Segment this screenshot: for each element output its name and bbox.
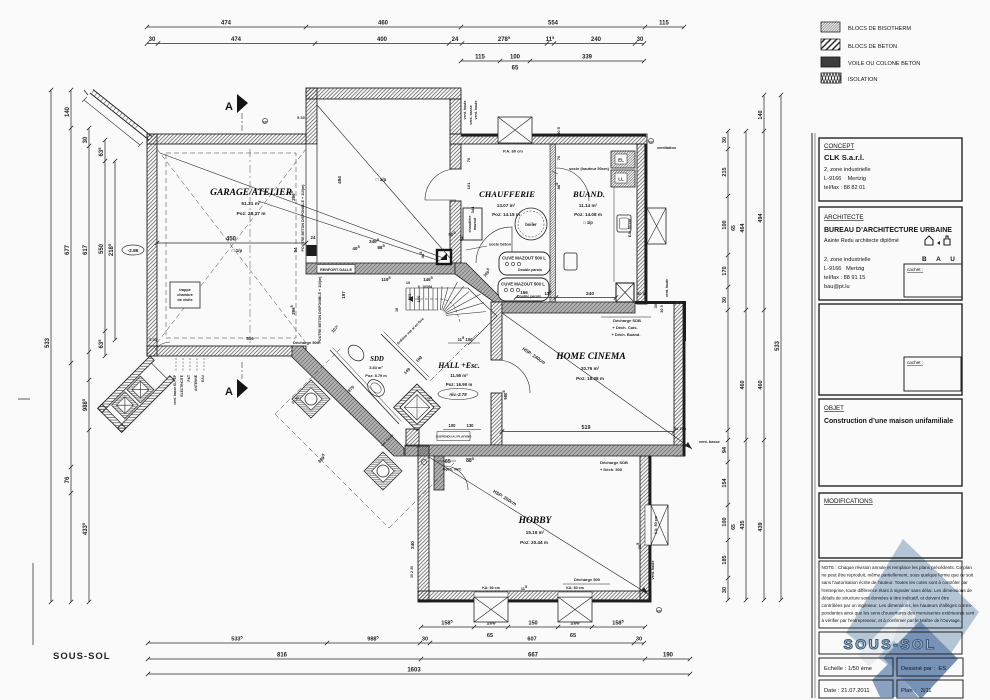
corridor centre dash line — [430, 332, 479, 381]
BAU logo houses — [925, 236, 933, 245]
chaudiere box — [463, 208, 482, 240]
column voile beton hall — [437, 250, 451, 264]
black outer edge hobby bottom — [418, 599, 651, 602]
legend swatch isolation — [821, 73, 841, 83]
page edge line bottom left — [32, 563, 34, 645]
stairs winder fan — [440, 282, 497, 345]
right dim 533 — [779, 93, 783, 602]
sink square buanderie — [564, 253, 577, 270]
bottom dim line 2 — [146, 641, 646, 645]
right dim line fine — [726, 129, 730, 602]
wall home cinema bottom / hobby top band — [405, 445, 685, 456]
chimney block EL — [611, 151, 635, 168]
diagonal dim along retaining wall — [82, 97, 143, 147]
left dim line 30-617-988-433 — [87, 126, 91, 604]
objet box — [819, 399, 962, 486]
door arc buanderie — [556, 168, 589, 201]
watermark white logo cutout — [858, 604, 916, 667]
entrance wing rotated corridor — [98, 356, 174, 432]
stairs straight flight — [406, 288, 468, 310]
utility riser labels — [175, 358, 177, 372]
renfort dalle label box — [317, 265, 355, 274]
top dim line 3 — [459, 59, 646, 63]
black outer edge home cinema right — [683, 302, 686, 456]
left dim 218 — [113, 159, 117, 342]
wall hobby bottom — [418, 591, 651, 602]
garage center line — [249, 149, 251, 343]
door arc chaufferie left — [425, 169, 456, 200]
wall top room right upper — [450, 99, 461, 134]
partition chaufferie buanderie — [550, 144, 556, 302]
wall chaufferie left lower segment — [450, 201, 461, 263]
concept box — [819, 138, 962, 201]
wall buanderie right — [637, 144, 647, 304]
elevator shaft diamond — [394, 384, 441, 431]
cachet box 1 — [904, 264, 962, 297]
SDD hall partition wall — [381, 334, 427, 380]
wall garage bottom — [147, 346, 306, 356]
wall garage top — [147, 134, 306, 144]
window box hobby right — [651, 505, 668, 545]
wall top room left upper — [306, 88, 317, 144]
plan no box — [897, 680, 963, 698]
left dim line 533 — [49, 88, 53, 604]
wall home cinema left upper — [491, 302, 502, 360]
watermark light blue diamond — [846, 539, 979, 693]
buanderie interior line — [613, 187, 615, 282]
window sill hobby bottom 1 — [474, 592, 508, 597]
window box chaufferie top — [498, 117, 532, 143]
wall buanderie bottom jog (voile) — [635, 301, 686, 304]
column voile beton in strip — [307, 245, 317, 256]
black outer edge chaufferie top — [461, 134, 646, 137]
wall home cinema left lower — [491, 393, 502, 445]
legend swatch voile ou colone beton — [821, 57, 840, 67]
wall stub below elevator — [406, 429, 419, 446]
stairs walk line — [410, 299, 460, 322]
wall home cinema top band — [502, 302, 635, 313]
window box buanderie right — [647, 208, 666, 244]
garage trappe box — [170, 282, 200, 308]
retaining wall top left diagonal — [90, 93, 149, 140]
door arc home cinema — [497, 360, 530, 393]
home cinema diagonal — [502, 313, 692, 449]
bottom dim line 4 — [146, 672, 692, 676]
garage diagonals — [157, 149, 306, 343]
top dim line 2 — [145, 41, 646, 45]
note box — [819, 561, 962, 628]
buand bottom dim — [514, 295, 618, 299]
wall chaufferie left upper segment — [450, 144, 461, 169]
hobby diagonal — [429, 457, 648, 594]
right dim line outer — [762, 93, 766, 602]
watermark dark blue diamond — [883, 621, 958, 699]
window box hobby bottom 2 — [558, 597, 592, 622]
wall chaufferie top — [450, 134, 647, 144]
architecte box — [819, 207, 962, 300]
title block left rule — [811, 133, 813, 698]
renfort band above hall — [306, 263, 455, 274]
level oval -2.86 — [122, 245, 144, 255]
top dim line 1 — [145, 25, 686, 29]
garage inner dim 450 — [155, 241, 308, 245]
home cinema width dim 519 — [500, 429, 676, 433]
black outer edge hobby right — [648, 456, 651, 602]
diagonal wall hall top — [455, 263, 505, 302]
dashed terrace outline — [275, 349, 454, 528]
left dim line 140-677-76 — [69, 88, 73, 604]
wall hobby left — [418, 446, 429, 602]
black outer edge buanderie right — [644, 144, 647, 304]
terrace well box 2 — [364, 452, 402, 490]
chimney block LL — [611, 170, 635, 187]
retaining wall hatch ticks — [92, 90, 139, 128]
wall top room top — [306, 88, 461, 99]
wall home cinema right — [674, 302, 685, 456]
dessine par box — [897, 658, 963, 676]
WC partition wall — [434, 456, 444, 490]
garage ramp line — [160, 153, 446, 259]
SDD fixtures — [345, 342, 367, 364]
cuve mazout 2 — [498, 278, 549, 301]
door arc wing entry — [155, 342, 170, 349]
washer square — [617, 215, 631, 232]
light well box 2 — [111, 392, 138, 419]
door arc WC hobby — [444, 466, 468, 490]
light well box 1 — [127, 376, 154, 403]
legend swatch blocs de beton — [821, 39, 840, 50]
right dim line mid — [744, 129, 748, 602]
suspendu au plafond box — [437, 432, 470, 441]
bottom dim line 3 — [146, 657, 692, 661]
echelle box — [819, 658, 893, 676]
SDD partition lines — [330, 350, 399, 424]
window box hobby bottom 1 — [474, 597, 508, 622]
cuve mazout 1 — [499, 252, 550, 275]
window sill hobby right — [645, 505, 651, 545]
diagonal wing wall garage to hall — [292, 346, 404, 456]
boiler circle — [515, 208, 547, 240]
left dim 63-550-63 — [103, 138, 107, 358]
terrace well box 1 — [292, 380, 330, 418]
window sill hobby bottom 2 — [558, 592, 592, 597]
date box — [819, 680, 893, 698]
top room diagonal — [317, 105, 450, 258]
wall garage left — [147, 134, 157, 356]
beam strip poutre beton — [306, 144, 317, 263]
door arc top room bottom — [476, 227, 512, 263]
wall hobby right — [640, 456, 651, 602]
bottom dim hobby windows — [419, 625, 647, 629]
duct box buanderie corner — [616, 283, 634, 302]
garage dashed inner rect — [166, 153, 296, 338]
empty box with cachet 2 — [819, 304, 962, 395]
sous-sol box — [819, 632, 962, 654]
modifications box — [819, 493, 962, 558]
legend swatch blocs de bisotherm — [821, 22, 840, 32]
